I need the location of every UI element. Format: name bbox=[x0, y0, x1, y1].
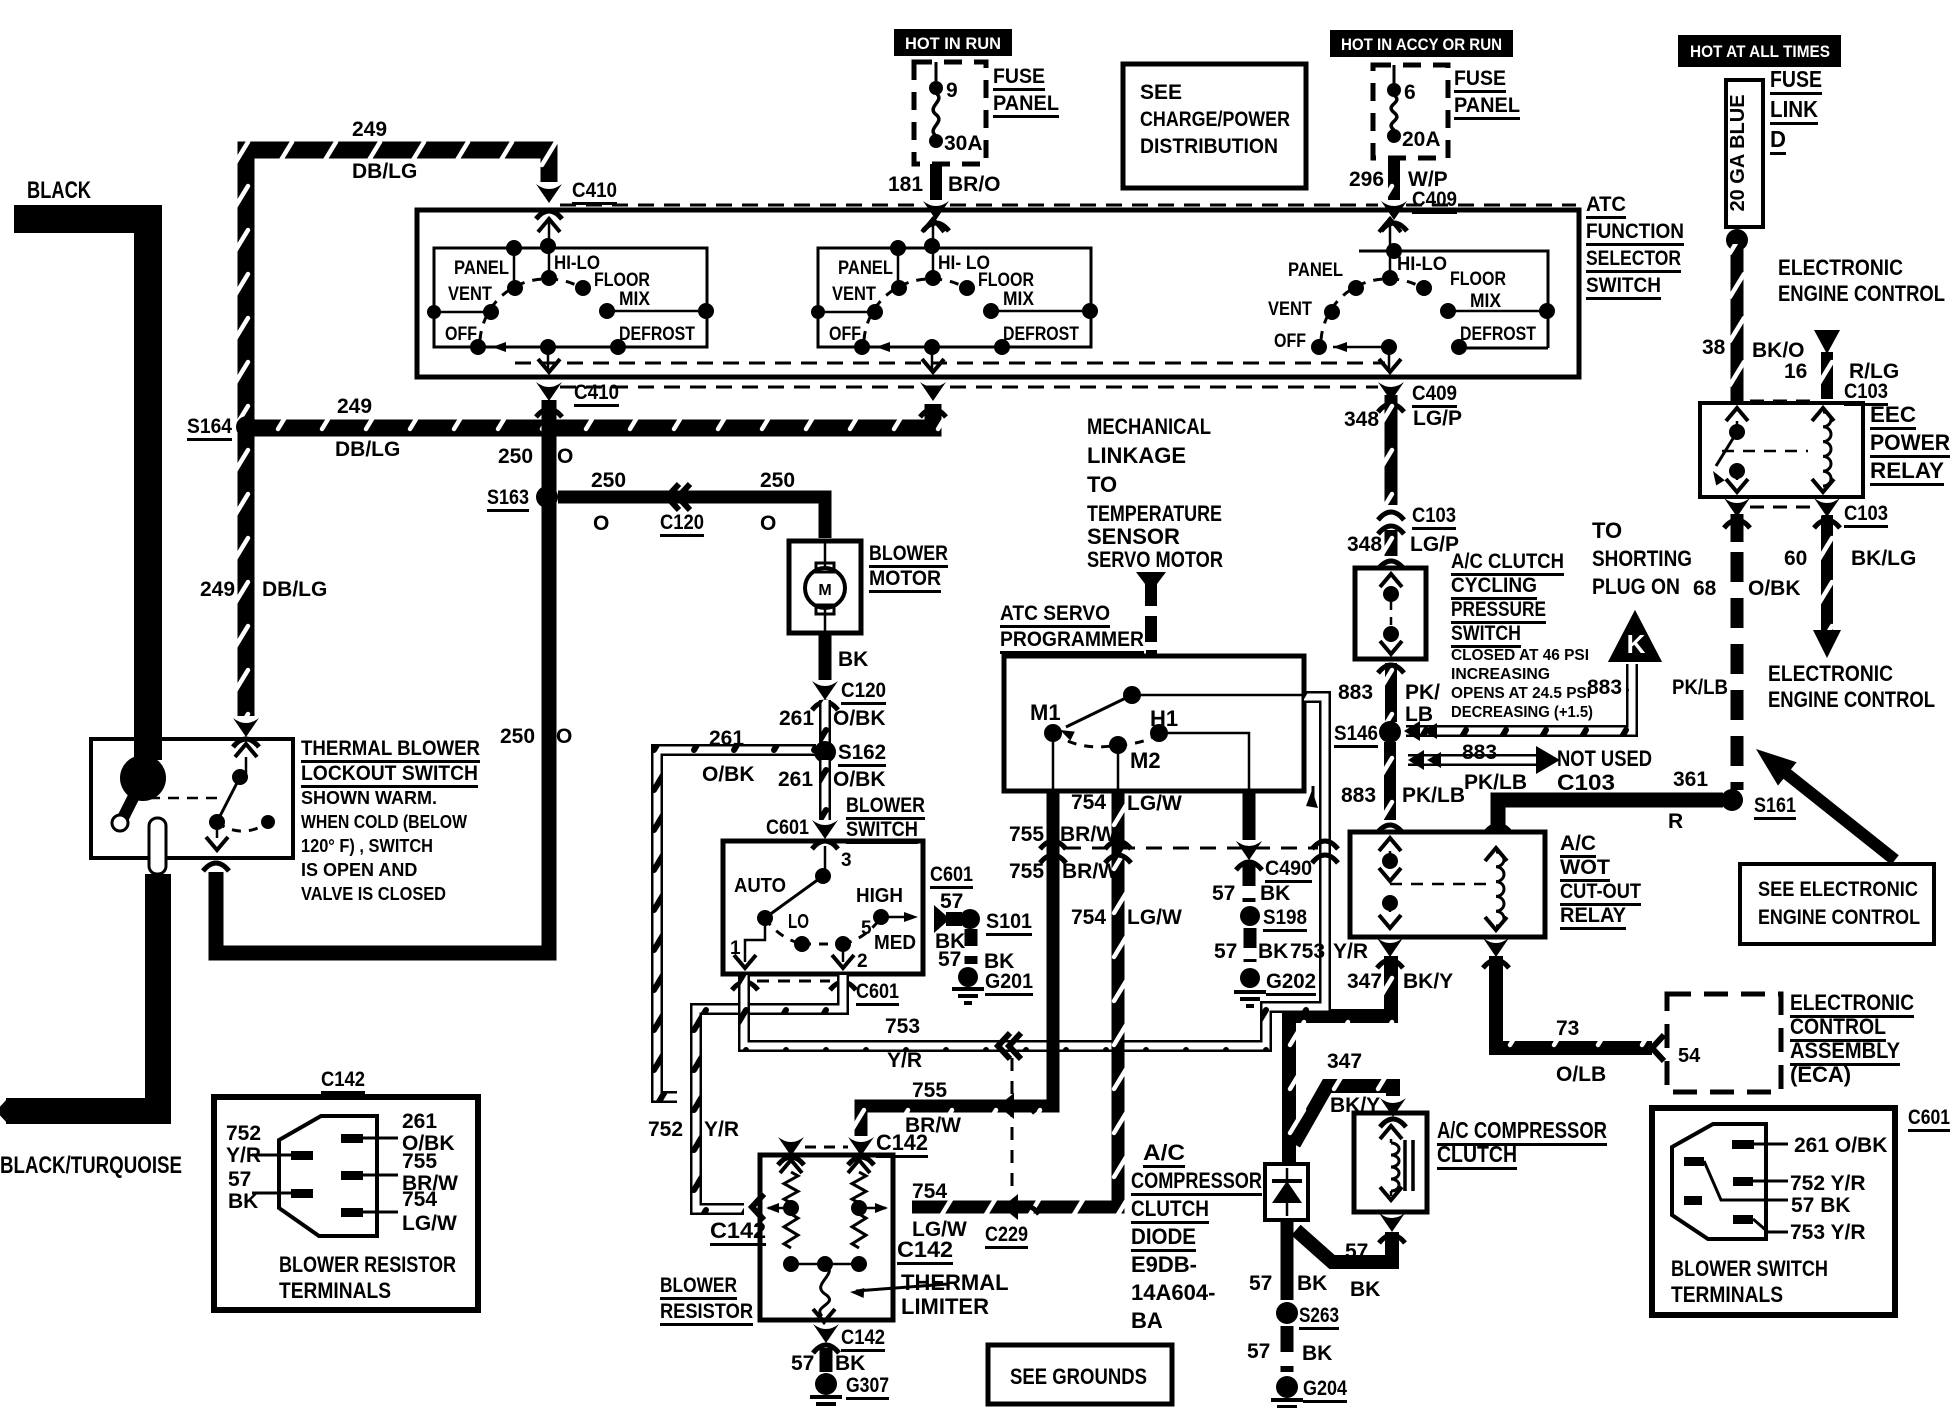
svg-text:57: 57 bbox=[1247, 1340, 1270, 1363]
svg-text:57: 57 bbox=[1345, 1240, 1368, 1263]
svg-text:261: 261 bbox=[402, 1110, 437, 1133]
C601 connector shape bbox=[1672, 1124, 1766, 1239]
C142 connector shape bbox=[279, 1116, 377, 1236]
svg-text:DB/LG: DB/LG bbox=[335, 438, 400, 461]
svg-text:755: 755 bbox=[1009, 860, 1044, 883]
svg-text:754: 754 bbox=[1071, 906, 1106, 929]
fuse element 30A bbox=[929, 81, 943, 95]
svg-text:LO: LO bbox=[788, 911, 809, 933]
svg-text:C103: C103 bbox=[1844, 380, 1888, 403]
svg-text:ELECTRONIC: ELECTRONIC bbox=[1768, 661, 1893, 686]
connector C410 (top) bbox=[536, 184, 562, 203]
module ATC servo programmer box bbox=[1004, 656, 1304, 791]
wire 755 BR/W (programmer to blower resistor) bbox=[861, 791, 1053, 1136]
svg-text:SEE GROUNDS: SEE GROUNDS bbox=[1010, 1364, 1147, 1389]
wire 348 LG/P (C103 to pressure switch) bbox=[1385, 530, 1398, 556]
svg-text:MOTOR: MOTOR bbox=[869, 567, 941, 590]
svg-text:3: 3 bbox=[841, 850, 852, 871]
wire 57 BK (programmer to S198/G202) bbox=[1243, 791, 1256, 840]
svg-text:BK: BK bbox=[1260, 882, 1290, 905]
svg-text:O/BK: O/BK bbox=[833, 707, 886, 730]
svg-text:CONTROL: CONTROL bbox=[1790, 1014, 1886, 1039]
power tag HOT IN ACCY OR RUN bbox=[1330, 30, 1513, 57]
svg-text:752: 752 bbox=[226, 1122, 261, 1145]
svg-text:VENT: VENT bbox=[448, 284, 492, 305]
svg-text:249: 249 bbox=[337, 395, 372, 418]
svg-text:S163: S163 bbox=[487, 486, 529, 509]
svg-text:O: O bbox=[557, 445, 573, 468]
svg-text:TO: TO bbox=[1087, 472, 1117, 497]
svg-text:BK: BK bbox=[1258, 940, 1288, 963]
svg-text:BLACK: BLACK bbox=[27, 177, 92, 204]
svg-text:AUTO: AUTO bbox=[734, 875, 786, 897]
svg-text:HOT IN ACCY OR RUN: HOT IN ACCY OR RUN bbox=[1341, 35, 1502, 54]
svg-text:ENGINE CONTROL: ENGINE CONTROL bbox=[1778, 281, 1945, 306]
node (fuse link D output) bbox=[1726, 229, 1748, 251]
wire 57 BK (diode to S263) bbox=[1281, 1220, 1294, 1300]
svg-text:FUNCTION: FUNCTION bbox=[1586, 220, 1684, 243]
blower switch internals bbox=[824, 846, 827, 874]
connector C409 (top) bbox=[1381, 201, 1407, 220]
svg-text:57: 57 bbox=[1212, 882, 1235, 905]
svg-text:ATC: ATC bbox=[1586, 193, 1626, 216]
svg-text:DECREASING (+1.5): DECREASING (+1.5) bbox=[1451, 704, 1593, 721]
wire BK (motor to C120) bbox=[819, 633, 832, 680]
svg-text:2: 2 bbox=[857, 951, 868, 972]
svg-text:BK/LG: BK/LG bbox=[1851, 547, 1916, 570]
connector (WOT relay bottom right) bbox=[1483, 938, 1509, 957]
svg-text:ENGINE CONTROL: ENGINE CONTROL bbox=[1768, 687, 1935, 712]
svg-text:PK/: PK/ bbox=[1405, 681, 1440, 704]
svg-text:O/BK: O/BK bbox=[702, 763, 755, 786]
svg-text:O: O bbox=[593, 512, 609, 535]
svg-text:57: 57 bbox=[791, 1352, 814, 1375]
solenoid A/C compressor clutch box bbox=[1354, 1113, 1427, 1212]
svg-text:BR/O: BR/O bbox=[948, 173, 1001, 196]
svg-text:D: D bbox=[1770, 126, 1786, 152]
dashed connector line (bottom) bbox=[560, 386, 1378, 389]
svg-text:LG/P: LG/P bbox=[1413, 407, 1462, 430]
svg-text:MED: MED bbox=[874, 932, 916, 954]
svg-text:WOT: WOT bbox=[1560, 856, 1610, 879]
svg-text:ELECTRONIC: ELECTRONIC bbox=[1778, 255, 1903, 280]
connector (lockout switch top) bbox=[233, 718, 259, 737]
wire 883 PK/LB (S146 to WOT relay) bbox=[1384, 742, 1396, 820]
svg-text:SENSOR: SENSOR bbox=[1087, 524, 1180, 549]
arrow (C490 flow indicator) bbox=[1306, 790, 1318, 808]
dashed line (OFF bus inside switch) bbox=[515, 362, 1385, 365]
svg-text:754: 754 bbox=[402, 1188, 437, 1211]
svg-text:C120: C120 bbox=[841, 679, 886, 702]
svg-text:THERMAL BLOWER: THERMAL BLOWER bbox=[301, 737, 480, 760]
svg-text:883: 883 bbox=[1587, 676, 1622, 699]
wire BLACK (battery feed) bbox=[14, 219, 148, 760]
svg-text:755: 755 bbox=[912, 1079, 947, 1102]
svg-text:CUT-OUT: CUT-OUT bbox=[1560, 880, 1641, 903]
svg-text:CLUTCH: CLUTCH bbox=[1131, 1196, 1209, 1221]
ground G202 bbox=[1240, 968, 1260, 988]
svg-text:57: 57 bbox=[940, 890, 963, 913]
label THERMAL LIMITER bbox=[856, 1284, 948, 1291]
svg-text:73: 73 bbox=[1556, 1017, 1579, 1040]
wire 57 BK (S263 to G204) bbox=[1281, 1326, 1294, 1372]
svg-text:PANEL: PANEL bbox=[838, 258, 893, 279]
svg-text:755: 755 bbox=[402, 1150, 437, 1173]
relay internals (EEC) bbox=[1726, 408, 1748, 421]
rotary switch 1 (ATC selector, left) bbox=[548, 217, 551, 278]
svg-text:296: 296 bbox=[1349, 168, 1384, 191]
connector C410 (bottom) bbox=[536, 382, 562, 401]
svg-text:261: 261 bbox=[779, 707, 814, 730]
wire 68 O/BK (dashed run to S161) bbox=[1731, 514, 1744, 542]
ground G204 bbox=[1276, 1376, 1298, 1398]
svg-text:C409: C409 bbox=[1412, 188, 1457, 211]
connector C409 (bottom) bbox=[1378, 382, 1404, 401]
svg-text:FUSE: FUSE bbox=[993, 65, 1045, 88]
svg-text:C103: C103 bbox=[1557, 770, 1615, 795]
svg-text:BLACK/TURQUOISE: BLACK/TURQUOISE bbox=[0, 1152, 182, 1179]
arrow (see electronic engine control pointer) bbox=[1772, 762, 1895, 860]
svg-text:57: 57 bbox=[1214, 940, 1237, 963]
connector (lockout switch bottom) bbox=[203, 863, 229, 871]
svg-text:OFF: OFF bbox=[829, 324, 861, 345]
wire 60 BK/LG bbox=[1821, 515, 1833, 632]
splice S263 bbox=[1276, 1302, 1298, 1324]
wire 883 PK/LB (S146 to K arrow) bbox=[1406, 664, 1632, 731]
svg-text:BLOWER: BLOWER bbox=[660, 1274, 737, 1297]
svg-text:BK: BK bbox=[1350, 1278, 1380, 1301]
svg-text:S198: S198 bbox=[1263, 906, 1307, 929]
svg-text:BK: BK bbox=[835, 1352, 865, 1375]
module Electronic Control Assembly (ECA) box bbox=[1667, 994, 1781, 1092]
splice S101 bbox=[960, 909, 980, 929]
connector (switch 2 output, bottom) bbox=[920, 382, 946, 401]
svg-text:C142: C142 bbox=[841, 1326, 885, 1349]
C601 pins and labels bbox=[1732, 1140, 1754, 1149]
svg-text:OFF: OFF bbox=[1274, 331, 1306, 352]
rotary switch 2 (ATC selector, middle) bbox=[932, 217, 935, 278]
svg-text:PROGRAMMER: PROGRAMMER bbox=[1000, 628, 1144, 651]
svg-text:30A: 30A bbox=[944, 132, 983, 155]
svg-text:S164: S164 bbox=[187, 415, 232, 438]
wire 249 DB/LG (S164 horizontal run) bbox=[252, 404, 933, 428]
svg-text:BK: BK bbox=[228, 1190, 258, 1213]
power tag HOT AT ALL TIMES bbox=[1678, 35, 1841, 67]
svg-text:MECHANICAL: MECHANICAL bbox=[1087, 414, 1211, 439]
svg-text:14A604-: 14A604- bbox=[1131, 1280, 1215, 1305]
svg-text:1: 1 bbox=[730, 938, 741, 959]
mechanical linkage (dashed shaft) bbox=[1136, 572, 1166, 584]
connector chevrons C490 bbox=[1040, 841, 1066, 849]
svg-text:G202: G202 bbox=[1266, 970, 1316, 993]
svg-text:754: 754 bbox=[912, 1180, 947, 1203]
svg-text:C120: C120 bbox=[660, 511, 704, 534]
svg-text:752: 752 bbox=[648, 1118, 683, 1141]
connector C229 (754 wire) bbox=[1002, 1194, 1018, 1220]
svg-text:20A: 20A bbox=[1402, 128, 1441, 151]
svg-text:CLOSED AT 46 PSI: CLOSED AT 46 PSI bbox=[1451, 647, 1589, 664]
svg-text:BR/W: BR/W bbox=[1062, 860, 1118, 883]
svg-text:O/BK: O/BK bbox=[833, 768, 886, 791]
svg-text:883: 883 bbox=[1338, 681, 1373, 704]
svg-text:K: K bbox=[1627, 629, 1646, 659]
svg-text:PANEL: PANEL bbox=[993, 92, 1059, 115]
svg-text:SHOWN WARM.: SHOWN WARM. bbox=[301, 788, 437, 808]
svg-text:38: 38 bbox=[1702, 336, 1726, 359]
note box SEE CHARGE/POWER DISTRIBUTION bbox=[1123, 64, 1306, 188]
svg-text:883: 883 bbox=[1341, 784, 1376, 807]
svg-text:A/C: A/C bbox=[1143, 1140, 1185, 1165]
wire 57 BK (S198 to G202) bbox=[1244, 928, 1257, 962]
svg-text:BK: BK bbox=[1297, 1272, 1327, 1295]
svg-text:C103: C103 bbox=[1844, 502, 1888, 525]
svg-text:BK: BK bbox=[838, 648, 868, 671]
dashed connector line (relay top) bbox=[1750, 400, 1812, 403]
wire 249 DB/LG (S164 down to lockout switch) bbox=[238, 430, 255, 716]
svg-text:C601: C601 bbox=[766, 816, 809, 839]
ground G201 bbox=[958, 967, 978, 987]
wire 296 W/P bbox=[1388, 158, 1400, 200]
note box SEE GROUNDS bbox=[988, 1345, 1172, 1404]
svg-text:M: M bbox=[818, 582, 831, 599]
svg-text:C601: C601 bbox=[856, 980, 899, 1003]
svg-text:BLOWER: BLOWER bbox=[846, 794, 925, 817]
svg-text:VALVE IS CLOSED: VALVE IS CLOSED bbox=[301, 884, 446, 904]
svg-text:9: 9 bbox=[946, 79, 958, 102]
svg-text:249: 249 bbox=[200, 578, 235, 601]
svg-text:ASSEMBLY: ASSEMBLY bbox=[1790, 1038, 1900, 1063]
svg-text:LINKAGE: LINKAGE bbox=[1087, 443, 1186, 468]
svg-text:WHEN COLD (BELOW: WHEN COLD (BELOW bbox=[301, 812, 467, 832]
svg-text:PK/LB: PK/LB bbox=[1672, 676, 1728, 699]
wire 347 BK/Y (relay to diode) bbox=[1289, 956, 1391, 1164]
wire 754 LG/W (programmer to blower resistor) bbox=[912, 791, 1118, 1207]
svg-text:BK/Y: BK/Y bbox=[1403, 970, 1453, 993]
dashed connector indicator (C229) bbox=[1011, 1058, 1014, 1195]
power tag HOT IN RUN bbox=[894, 29, 1012, 56]
svg-text:347: 347 bbox=[1347, 970, 1382, 993]
connector (181 into selector switch) bbox=[923, 201, 949, 220]
svg-text:181: 181 bbox=[888, 173, 923, 196]
svg-text:HOT AT ALL TIMES: HOT AT ALL TIMES bbox=[1690, 42, 1830, 61]
wire 883 PK/LB (S146 to NOT USED C103) bbox=[1408, 754, 1538, 766]
splice S146 dot bbox=[1379, 721, 1401, 743]
arrow K (to shorting plug) bbox=[1608, 610, 1662, 662]
wire 16 R/LG bbox=[1814, 330, 1840, 354]
svg-text:H1: H1 bbox=[1150, 706, 1178, 731]
svg-text:MIX: MIX bbox=[619, 289, 650, 310]
svg-text:ATC SERVO: ATC SERVO bbox=[1000, 602, 1110, 625]
svg-text:120° F) , SWITCH: 120° F) , SWITCH bbox=[301, 836, 433, 856]
wire 261 O/BK (C120 to S162) bbox=[819, 700, 831, 744]
svg-text:PANEL: PANEL bbox=[1454, 94, 1520, 117]
svg-text:250: 250 bbox=[498, 445, 533, 468]
svg-text:ELECTRONIC: ELECTRONIC bbox=[1790, 990, 1914, 1015]
switch blower switch box bbox=[723, 841, 923, 974]
rotary switch 3 (ATC selector, right) bbox=[1389, 217, 1392, 278]
svg-text:SWITCH: SWITCH bbox=[846, 818, 918, 841]
svg-text:SWITCH: SWITCH bbox=[1586, 274, 1661, 297]
svg-text:C409: C409 bbox=[1412, 382, 1457, 405]
svg-text:54: 54 bbox=[1678, 1045, 1701, 1067]
svg-text:LINK: LINK bbox=[1770, 96, 1818, 122]
switch A/C clutch cycling pressure switch bbox=[1355, 568, 1426, 659]
wire 250 O (S163 to blower motor) bbox=[558, 497, 825, 538]
svg-text:DEFROST: DEFROST bbox=[1003, 324, 1079, 345]
svg-text:250: 250 bbox=[591, 469, 626, 492]
svg-text:16: 16 bbox=[1784, 360, 1807, 383]
svg-text:DIODE: DIODE bbox=[1131, 1224, 1196, 1249]
svg-text:OFF: OFF bbox=[445, 324, 477, 345]
svg-text:EEC: EEC bbox=[1870, 402, 1916, 427]
svg-text:IS OPEN AND: IS OPEN AND bbox=[301, 860, 417, 880]
switch thermal blower lockout switch box bbox=[91, 739, 293, 858]
svg-text:M2: M2 bbox=[1130, 748, 1161, 773]
svg-text:261: 261 bbox=[709, 727, 744, 750]
blower resistor internals bbox=[780, 1160, 802, 1173]
fuse 30A (dashed fuse panel box) bbox=[914, 62, 986, 164]
wire 347 BK/Y (branch to compressor clutch) bbox=[1294, 1086, 1393, 1144]
wire 250 O (C410 to S163 to lockout switch) bbox=[216, 400, 549, 953]
wire 57 BK (clutch to diode junction) bbox=[1296, 1230, 1392, 1262]
svg-text:249: 249 bbox=[352, 118, 387, 141]
splice S198 bbox=[1240, 906, 1260, 926]
svg-text:348: 348 bbox=[1347, 533, 1382, 556]
svg-text:BR/W: BR/W bbox=[1060, 823, 1116, 846]
svg-text:A/C COMPRESSOR: A/C COMPRESSOR bbox=[1437, 1117, 1607, 1143]
svg-text:THERMAL: THERMAL bbox=[901, 1270, 1009, 1295]
svg-text:BLOWER: BLOWER bbox=[869, 542, 948, 565]
connector C103 (348 wire) bbox=[1378, 512, 1404, 520]
svg-text:G201: G201 bbox=[985, 970, 1033, 993]
svg-text:FLOOR: FLOOR bbox=[594, 270, 650, 291]
svg-text:LG/W: LG/W bbox=[1127, 792, 1182, 815]
svg-text:752 Y/R: 752 Y/R bbox=[1790, 1172, 1866, 1195]
svg-text:BK: BK bbox=[1302, 1342, 1332, 1365]
svg-text:S101: S101 bbox=[986, 910, 1032, 933]
svg-text:Y/R: Y/R bbox=[704, 1118, 739, 1141]
svg-text:C103: C103 bbox=[1412, 504, 1456, 527]
wire 57 BK (S101 to G201) bbox=[965, 929, 978, 964]
svg-text:FLOOR: FLOOR bbox=[978, 270, 1034, 291]
connector C142 (resistor output) bbox=[813, 1324, 839, 1343]
svg-text:TERMINALS: TERMINALS bbox=[1671, 1282, 1783, 1307]
svg-text:C490: C490 bbox=[1265, 857, 1312, 880]
connector C490 (dashed line) bbox=[1065, 847, 1318, 850]
svg-text:C601: C601 bbox=[1908, 1106, 1950, 1129]
wire 361 R (S161 to WOT relay) bbox=[1498, 800, 1723, 832]
svg-text:5: 5 bbox=[861, 918, 872, 939]
wire 73 O/LB (relay to ECA) bbox=[1496, 956, 1652, 1048]
svg-text:BLOWER SWITCH: BLOWER SWITCH bbox=[1671, 1256, 1828, 1281]
resistor blower resistor box bbox=[760, 1155, 893, 1320]
note box SEE ELECTRONIC ENGINE CONTROL bbox=[1740, 864, 1934, 944]
connector C601 (blower switch top) bbox=[812, 820, 838, 839]
svg-text:57: 57 bbox=[1249, 1272, 1272, 1295]
fuse link 20 GA BLUE bbox=[1726, 80, 1763, 227]
svg-text:347: 347 bbox=[1327, 1050, 1362, 1073]
wire 38 BK/O bbox=[1731, 244, 1744, 401]
svg-text:261 O/BK: 261 O/BK bbox=[1794, 1134, 1887, 1157]
svg-text:SELECTOR: SELECTOR bbox=[1586, 247, 1681, 270]
svg-text:POWER: POWER bbox=[1870, 430, 1950, 455]
svg-text:PLUG ON: PLUG ON bbox=[1592, 574, 1680, 599]
svg-text:DEFROST: DEFROST bbox=[619, 324, 695, 345]
connector (361 R into WOT relay) bbox=[1485, 825, 1511, 833]
svg-text:250: 250 bbox=[500, 725, 535, 748]
wire 181 BR/O bbox=[930, 164, 942, 200]
splice S164 bbox=[236, 416, 258, 438]
svg-text:CYCLING: CYCLING bbox=[1451, 574, 1537, 597]
connector C120 (below motor) bbox=[812, 681, 838, 700]
svg-text:755: 755 bbox=[1009, 823, 1044, 846]
svg-text:FLOOR: FLOOR bbox=[1450, 269, 1506, 290]
svg-text:A/C CLUTCH: A/C CLUTCH bbox=[1451, 550, 1564, 573]
svg-text:RELAY: RELAY bbox=[1870, 458, 1944, 483]
svg-text:SEE ELECTRONIC: SEE ELECTRONIC bbox=[1758, 878, 1918, 901]
svg-text:57: 57 bbox=[938, 948, 961, 971]
svg-text:FUSE: FUSE bbox=[1770, 66, 1822, 92]
connector C103 (relay bottom) bbox=[1724, 498, 1750, 517]
splice S162 bbox=[814, 741, 836, 763]
svg-text:PANEL: PANEL bbox=[454, 258, 509, 279]
svg-text:G204: G204 bbox=[1303, 1377, 1347, 1400]
svg-text:Y/R: Y/R bbox=[1333, 940, 1368, 963]
svg-text:HOT IN RUN: HOT IN RUN bbox=[905, 34, 1001, 53]
svg-text:TEMPERATURE: TEMPERATURE bbox=[1087, 501, 1222, 526]
svg-text:HI-LO: HI-LO bbox=[1397, 254, 1447, 275]
ground G307 bbox=[815, 1373, 837, 1395]
wire BLACK/TURQUOISE (lockout switch output) bbox=[145, 874, 171, 1098]
svg-text:348: 348 bbox=[1344, 408, 1379, 431]
svg-text:BK/O: BK/O bbox=[1752, 339, 1805, 362]
svg-text:68: 68 bbox=[1693, 577, 1717, 600]
svg-text:DISTRIBUTION: DISTRIBUTION bbox=[1140, 135, 1278, 158]
svg-text:C601: C601 bbox=[930, 863, 973, 886]
svg-text:SHORTING: SHORTING bbox=[1592, 546, 1692, 571]
svg-text:883: 883 bbox=[1462, 741, 1497, 764]
svg-text:TO: TO bbox=[1592, 518, 1622, 543]
svg-text:60: 60 bbox=[1784, 547, 1807, 570]
splice S163 bbox=[536, 486, 558, 508]
svg-text:SWITCH: SWITCH bbox=[1451, 622, 1521, 645]
svg-text:PK/LB: PK/LB bbox=[1464, 771, 1527, 794]
svg-text:753: 753 bbox=[1290, 940, 1325, 963]
svg-text:O/BK: O/BK bbox=[1748, 577, 1801, 600]
connector C601 (blower switch bottom) bbox=[732, 982, 758, 990]
connector (WOT relay bottom left) bbox=[1377, 938, 1403, 957]
svg-text:6: 6 bbox=[1404, 81, 1416, 104]
svg-text:57: 57 bbox=[228, 1168, 251, 1191]
svg-text:C142: C142 bbox=[897, 1237, 953, 1262]
lockout switch lever bbox=[120, 755, 166, 801]
svg-text:HIGH: HIGH bbox=[856, 885, 903, 907]
diode A/C compressor clutch diode bbox=[1265, 1164, 1308, 1220]
svg-text:O: O bbox=[760, 512, 776, 535]
connector detail box C601 (blower switch terminals) bbox=[1652, 1108, 1895, 1315]
svg-text:COMPRESSOR: COMPRESSOR bbox=[1131, 1168, 1262, 1193]
dashed connector line C410/C409 (top) bbox=[560, 204, 1576, 207]
svg-text:FUSE: FUSE bbox=[1454, 67, 1506, 90]
svg-text:753 Y/R: 753 Y/R bbox=[1790, 1221, 1866, 1244]
wire 348 LG/P (C409 to C103) bbox=[1385, 395, 1398, 505]
fuse 20A (dashed fuse panel box) bbox=[1373, 65, 1448, 158]
svg-text:PK/LB: PK/LB bbox=[1402, 784, 1465, 807]
svg-text:MIX: MIX bbox=[1470, 291, 1501, 312]
svg-text:M1: M1 bbox=[1030, 700, 1061, 725]
svg-text:LG/W: LG/W bbox=[402, 1212, 457, 1235]
wire 883 PK/LB (pressure switch to S146) bbox=[1378, 665, 1404, 673]
